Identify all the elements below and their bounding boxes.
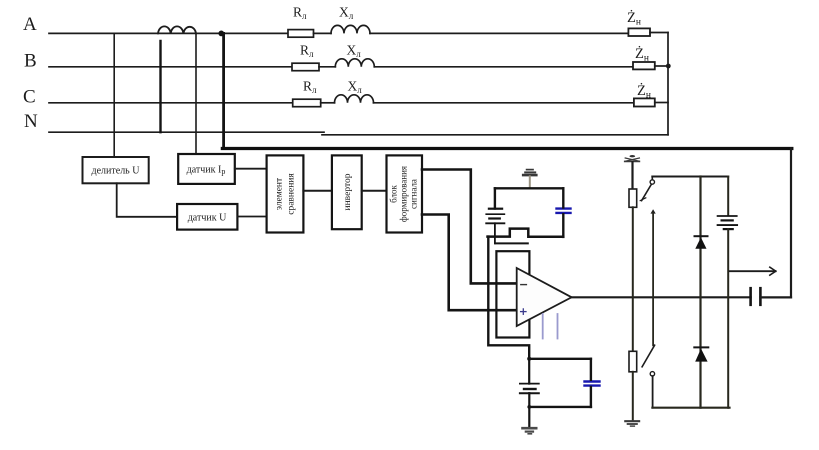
wire phase B left segment [49,66,292,68]
capacitor C2 (blue) [585,382,600,386]
op-amp non-inverting input mark [521,309,526,314]
wire top of switching bridge [652,176,728,178]
wire C2 top stem [590,359,592,380]
wire op-amp output [572,296,751,298]
wire negative supply bottom [529,406,591,408]
ground below R2 [625,421,639,426]
wire bottom of switching bridge [652,407,729,409]
wire phase A left segment [49,32,288,34]
block sensor Ip [178,154,235,184]
wire phase B between R and X [319,66,335,68]
wire horizontal bus [222,147,791,150]
wire C1 bottom stem [562,214,564,237]
wire positive supply top [495,187,563,189]
svg-text:датчик Iр: датчик Iр [187,165,226,177]
svg-text:датчик U: датчик U [188,213,227,224]
wire phase A tap to divider [113,33,115,157]
svg-text:блок: блок [389,185,399,203]
wire battery bus bar [495,242,528,244]
wire negative supply top [529,358,591,360]
wire C1 top stem [562,188,564,207]
capacitor C3 [751,288,761,305]
diode VD1 [695,236,708,249]
node junction negative supply [527,357,531,361]
wire phase B right segment [374,66,633,68]
wire load C to common [655,102,668,104]
wire sensor Ip to comparator [235,168,267,170]
battery G2 [520,384,539,394]
resistor R_L phase C [293,99,321,107]
wire supply bottom with hop [488,229,564,237]
block divider U [83,157,149,183]
wire diode column [699,177,701,408]
node junction on phase A [218,31,224,37]
ground below battery G2 [523,428,537,434]
wire CT lead left to N [159,41,161,132]
load Z_H phase A [628,28,650,36]
wire load A to common [650,32,668,34]
wire phase N right segment [322,134,668,136]
diode VD2 [694,347,708,361]
wire battery G3 bottom stem [727,229,729,408]
block signal forming [387,155,423,232]
block inverter [332,155,362,229]
svg-text:формирования: формирования [399,166,409,222]
node junction negative supply bottom [527,405,531,409]
load Z_H phase C [634,98,655,106]
svg-text:A: A [23,14,37,35]
antenna symbol top of discharge rail [625,155,640,161]
resistor R_L phase A [288,30,314,38]
artifact strokes below op-amp [543,314,558,339]
svg-text:сигнала: сигнала [409,179,419,209]
wire phase N left segment [49,131,324,133]
wire phase A right segment [370,32,628,34]
wire signal block bottom output to op-amp non-inverting input [422,215,517,311]
wire antenna stem [631,162,633,189]
inductor X_L phase C [335,95,374,103]
svg-text:элемент: элемент [275,177,285,210]
wire phase A between R and X [314,32,332,34]
op-amp U1 [517,268,572,326]
wire battery G1 bottom stem [494,223,496,243]
wire rail below R2 [632,372,634,421]
wire divider to sensor U [117,183,177,217]
block comparison element [267,155,304,232]
output arrow terminal [730,267,776,275]
wire drop from phase A junction to bus [222,33,225,148]
wire phase C between R and X [321,102,335,104]
svg-text:B: B [24,51,37,72]
wire battery G2 bottom stem [528,393,530,427]
battery G1 [486,209,504,224]
feedback rectangle around op-amp [496,251,529,337]
wire outer rail down to negative supply [488,237,529,359]
op-amp inverting input mark [521,284,527,286]
wire rail between resistors [632,207,634,351]
wire C3 to right rail [760,296,791,298]
wire sensor U to comparator [237,216,266,218]
wire signal block top output to op-amp inverting input [422,170,517,284]
wire S1 to S2 [652,213,654,346]
chassis symbol above positive supply [523,170,536,188]
wire phase C right segment [374,102,634,104]
block sensor U [177,204,237,230]
battery G3 [718,216,738,229]
wire inverter to signal block [362,190,387,192]
wire right rail vertical [790,149,792,298]
switch S2 [642,345,655,408]
switch S1 [640,177,656,214]
svg-text:N: N [24,111,38,132]
svg-text:C: C [23,87,36,108]
resistor R1 vertical [629,189,637,207]
wire load B to common [655,65,668,67]
wire to battery G1 top [494,188,496,208]
wire loads common vertical [667,33,669,135]
wire CT lead right to current sensor [195,33,197,154]
inductor X_L phase B [335,59,374,67]
resistor R_L phase B [292,63,319,70]
capacitor C1 (blue) [557,209,571,213]
node junction loads common [666,64,671,69]
wire battery G2 top stem [528,359,530,384]
svg-text:сравнения: сравнения [287,173,297,215]
svg-text:инвертор: инвертор [343,173,353,210]
svg-text:делитель U: делитель U [92,166,141,177]
load Z_H phase B [633,62,655,69]
wire comparator to inverter [303,190,332,192]
wire C2 bottom stem [590,387,592,407]
transformer CT primary winding on phase A [158,26,196,33]
wire battery G3 top stem [727,177,729,216]
resistor R2 vertical [629,351,637,372]
wire phase C left segment [49,102,293,104]
inductor X_L phase A [331,25,370,33]
